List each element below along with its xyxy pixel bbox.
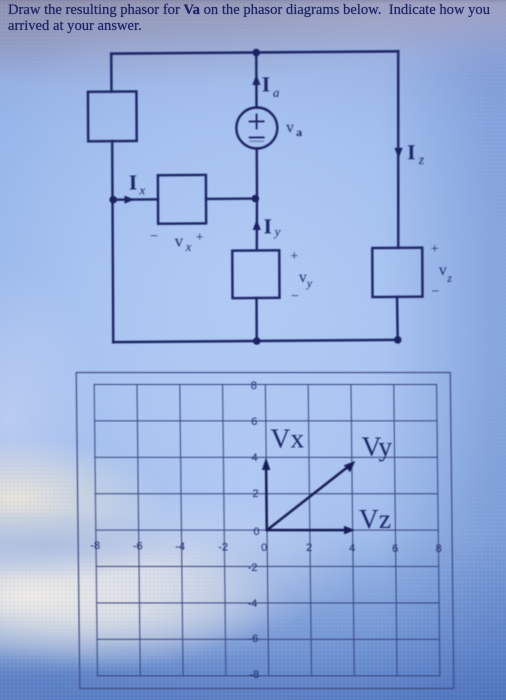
svg-text:I: I xyxy=(264,214,272,238)
svg-text:+: + xyxy=(196,230,204,245)
arrow Ia (up) xyxy=(252,74,260,85)
wire left branch lower xyxy=(112,141,113,342)
svg-text:6: 6 xyxy=(251,416,257,428)
junction node bottom center xyxy=(253,337,261,345)
wire center bottom xyxy=(255,298,258,341)
junction node left xyxy=(109,196,117,204)
svg-text:Vz: Vz xyxy=(359,503,391,534)
svg-text:4: 4 xyxy=(252,452,258,464)
svg-text:v: v xyxy=(175,232,184,251)
wire Ix branch right xyxy=(206,197,255,200)
svg-text:v: v xyxy=(299,269,307,286)
impedance box Y xyxy=(232,250,279,298)
impedance box X xyxy=(158,175,206,224)
svg-text:6: 6 xyxy=(392,543,398,555)
arrow Ix (right) xyxy=(124,196,134,204)
svg-text:-4: -4 xyxy=(175,541,185,553)
svg-text:I: I xyxy=(262,72,270,96)
phasor vector Vz (0 to 4+j0) xyxy=(267,526,355,534)
source Va (independent voltage source) xyxy=(236,107,277,148)
phasor vector Vy (0 to 4+j4) xyxy=(266,461,356,530)
svg-text:−: − xyxy=(291,289,299,304)
svg-text:a: a xyxy=(273,85,280,100)
x axis tick labels xyxy=(90,540,442,555)
label minus vx plus xyxy=(150,229,204,254)
svg-text:0: 0 xyxy=(253,526,259,538)
svg-text:0: 0 xyxy=(261,542,267,554)
svg-text:Vy: Vy xyxy=(361,431,392,462)
source plus sign xyxy=(250,114,264,128)
phasor grid vertical lines xyxy=(94,385,440,676)
svg-text:Vx: Vx xyxy=(270,423,304,454)
wire right branch (carries Iz) xyxy=(397,51,399,248)
wire left branch upper xyxy=(110,54,113,92)
svg-text:-2: -2 xyxy=(248,562,258,574)
phasor vector Vx (0 to 0+j4) xyxy=(262,458,271,531)
svg-text:2: 2 xyxy=(252,488,258,500)
arrow Iz (down) xyxy=(394,148,402,159)
svg-text:-4: -4 xyxy=(248,598,258,610)
svg-text:+: + xyxy=(290,249,298,264)
svg-text:I: I xyxy=(407,140,415,164)
svg-text:-6: -6 xyxy=(133,541,143,553)
svg-text:y: y xyxy=(306,278,313,290)
impedance box Z xyxy=(372,248,422,297)
svg-text:z: z xyxy=(418,152,425,167)
svg-text:v: v xyxy=(439,262,447,279)
impedance box left (element carrying Ix branch feed) xyxy=(88,91,137,141)
svg-text:-8: -8 xyxy=(249,669,259,681)
junction node top center xyxy=(252,49,260,57)
wire right bottom xyxy=(396,297,399,340)
svg-text:y: y xyxy=(273,224,281,239)
wire bottom horizontal xyxy=(113,340,398,342)
source minus sign xyxy=(250,137,264,141)
svg-text:I: I xyxy=(129,170,137,194)
svg-text:x: x xyxy=(138,182,145,197)
y axis tick labels xyxy=(245,380,261,681)
label Ia xyxy=(262,72,280,100)
svg-text:-2: -2 xyxy=(218,542,228,554)
svg-text:v: v xyxy=(286,119,294,136)
label Iy xyxy=(264,214,281,239)
wire center middle (carries Iy) xyxy=(256,148,257,250)
svg-text:-8: -8 xyxy=(90,540,100,552)
svg-text:2: 2 xyxy=(306,542,312,554)
junction node bottom right xyxy=(394,336,402,344)
label Va xyxy=(286,119,302,139)
svg-text:a: a xyxy=(296,125,302,139)
phasor grid horizontal lines xyxy=(94,385,440,676)
wire top horizontal xyxy=(111,51,398,53)
svg-text:8: 8 xyxy=(436,543,442,555)
label Iz xyxy=(407,140,425,167)
svg-text:x: x xyxy=(185,240,192,254)
svg-text:4: 4 xyxy=(349,543,355,555)
label Ix xyxy=(129,170,146,197)
wire center top (carries Ia) xyxy=(255,52,258,107)
wire Ix branch left xyxy=(113,198,158,201)
svg-text:−: − xyxy=(150,229,158,244)
svg-text:-6: -6 xyxy=(248,633,258,645)
label plus vy minus xyxy=(290,249,313,304)
svg-text:8: 8 xyxy=(251,380,257,392)
svg-text:−: − xyxy=(431,285,439,300)
junction node center xyxy=(252,195,260,203)
phasor plot outer frame xyxy=(76,373,454,689)
svg-text:+: + xyxy=(431,242,439,257)
svg-text:z: z xyxy=(446,273,452,285)
arrow Iy (up) xyxy=(253,219,261,230)
label plus vz minus xyxy=(431,242,453,300)
